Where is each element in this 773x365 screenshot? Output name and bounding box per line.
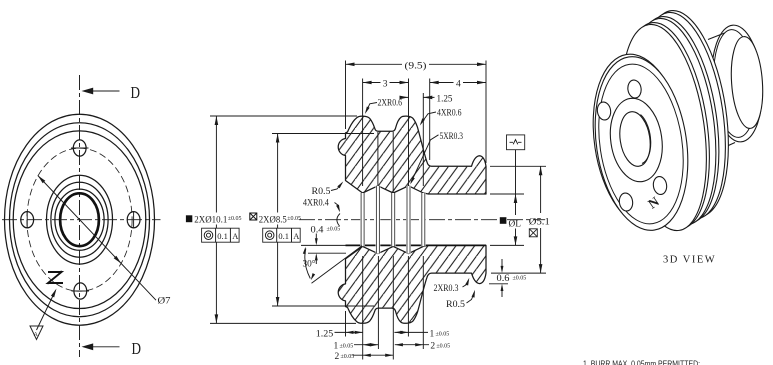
svg-text:Ø5.1: Ø5.1 <box>529 217 550 227</box>
callout 10.1 <box>186 213 242 243</box>
svg-text:A: A <box>34 332 39 338</box>
bolt circle dashed <box>27 148 132 291</box>
section arrow D bottom <box>92 346 120 348</box>
outer ring 3 <box>13 131 146 309</box>
bolt hole bottom <box>74 283 87 299</box>
svg-text:±0.05: ±0.05 <box>341 354 355 360</box>
svg-text:3D VIEW: 3D VIEW <box>663 255 716 266</box>
svg-text:Ø7: Ø7 <box>158 296 172 306</box>
centerline <box>299 219 545 221</box>
rib 2 back edge <box>622 11 732 228</box>
flange face rim ring <box>589 58 694 229</box>
svg-text:0.4: 0.4 <box>311 225 325 235</box>
svg-text:±0.05: ±0.05 <box>340 344 354 350</box>
bore <box>616 110 653 169</box>
slot bars <box>360 186 425 254</box>
svg-text:0.1: 0.1 <box>278 231 289 241</box>
svg-text:ØL: ØL <box>509 219 522 229</box>
rear hub end face <box>728 36 765 130</box>
Z mark <box>47 271 63 284</box>
svg-text:1. BURR MAX. 0.05mm PERMITTED:: 1. BURR MAX. 0.05mm PERMITTED: <box>583 360 700 365</box>
svg-text:2XØ8.5: 2XØ8.5 <box>259 216 287 226</box>
bottom ext lines <box>346 256 424 360</box>
hole left <box>596 101 612 121</box>
rear hub ridge inner edge <box>710 28 759 139</box>
svg-text:±0.05: ±0.05 <box>327 227 341 233</box>
hole top <box>627 79 643 99</box>
bore bottom thick line <box>346 244 487 246</box>
bolt hole top <box>73 140 86 156</box>
svg-text:D: D <box>132 339 142 358</box>
inner ring 3 <box>55 189 104 250</box>
callout 8.5 <box>250 213 301 243</box>
ext lines vertical top <box>346 61 487 187</box>
svg-text:2XR0.3: 2XR0.3 <box>434 283 459 293</box>
diameter dim line Ø7 <box>38 176 156 301</box>
svg-text:A: A <box>232 231 239 241</box>
hole ticks <box>27 148 133 291</box>
svg-text:±0.05: ±0.05 <box>436 344 450 350</box>
rib 2 <box>619 13 729 230</box>
svg-text:±0.05: ±0.05 <box>513 276 527 282</box>
svg-text:0.6: 0.6 <box>497 273 511 283</box>
inner ring 1 <box>47 175 113 264</box>
rib 3 back edge <box>631 5 741 222</box>
svg-text:±0.05: ±0.05 <box>287 216 301 222</box>
svg-text:0.1: 0.1 <box>217 231 228 241</box>
svg-text:2XR0.6: 2XR0.6 <box>378 98 403 108</box>
svg-text:A: A <box>293 231 300 241</box>
rib 3 <box>628 7 738 224</box>
outer ring 1 <box>5 114 155 325</box>
rib 1 <box>609 19 719 236</box>
svg-text:2: 2 <box>335 352 340 362</box>
svg-text:1: 1 <box>334 342 339 352</box>
dia 5.1 dim <box>540 166 542 273</box>
neck top edge <box>708 33 725 40</box>
ext lines left horizontals <box>210 116 374 323</box>
dim 9.5 <box>346 63 487 65</box>
bolt hole left <box>21 212 34 228</box>
svg-text:D: D <box>131 83 141 102</box>
neck bottom edge <box>724 143 735 148</box>
hole bottom <box>618 192 634 212</box>
rib 1 back edge <box>612 17 722 234</box>
bolt hole right <box>127 212 140 228</box>
svg-text:1.25: 1.25 <box>316 329 334 339</box>
svg-text:R0.5: R0.5 <box>446 299 466 309</box>
dim 4 <box>430 82 486 84</box>
upper half body <box>338 116 486 194</box>
0.6 dim <box>501 259 503 297</box>
dim 8.5 vertical <box>277 134 279 307</box>
bore bold <box>60 193 99 246</box>
inner ring 2 <box>51 182 108 257</box>
diaL dim <box>507 135 525 150</box>
svg-text:(9.5): (9.5) <box>405 60 427 71</box>
rear hub ridge outer <box>708 23 766 143</box>
svg-text:2XØ10.1: 2XØ10.1 <box>194 216 227 226</box>
lower half body <box>338 245 486 323</box>
svg-text:1: 1 <box>430 329 435 339</box>
flange rim <box>582 48 697 234</box>
dim 3 <box>363 82 409 84</box>
svg-text:R0.5: R0.5 <box>312 186 332 196</box>
groove wall lines slots 2,3 upper <box>378 132 393 193</box>
svg-text:4XR0.4: 4XR0.4 <box>303 198 329 208</box>
dim 1.25 top <box>400 96 435 98</box>
hole right <box>652 176 668 196</box>
vertical centerline <box>79 75 81 357</box>
svg-text:±0.05: ±0.05 <box>436 331 450 337</box>
bore depth arc <box>641 115 651 164</box>
horizontal centerline <box>2 219 161 221</box>
dim 10.1 vertical <box>215 116 217 323</box>
hub ring <box>605 95 668 186</box>
outer ring 2 <box>10 123 150 317</box>
30 deg construction line <box>312 246 363 283</box>
svg-text:5XR0.3: 5XR0.3 <box>440 131 464 141</box>
section arrow D top <box>92 90 120 92</box>
right side ext lines <box>489 166 546 283</box>
svg-text:2: 2 <box>430 342 435 352</box>
svg-text:1.25: 1.25 <box>437 94 453 104</box>
flange face <box>584 50 699 236</box>
svg-text:±0.05: ±0.05 <box>228 216 242 222</box>
svg-text:4XR0.6: 4XR0.6 <box>437 108 462 118</box>
svg-text:3: 3 <box>383 80 388 90</box>
svg-text:4: 4 <box>456 80 461 90</box>
datum triangle <box>30 326 43 340</box>
datum leader <box>37 291 56 331</box>
